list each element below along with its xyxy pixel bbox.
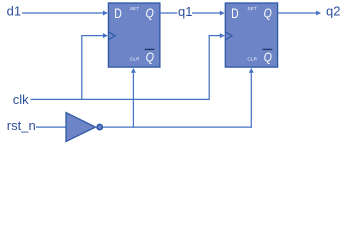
svg-text:d1: d1: [7, 4, 21, 19]
svg-text:rst_n: rst_n: [7, 118, 36, 133]
svg-text:Q: Q: [264, 49, 272, 64]
U2 pin Qbar: [263, 49, 273, 64]
svg-text:D: D: [114, 6, 122, 21]
U1 pin SET: [130, 6, 140, 11]
node q1 label: [177, 4, 192, 19]
wire clk branch up to U1 clock: [81, 33, 108, 100]
inverter U3 triangle: [66, 113, 96, 142]
U1 clock chevron: [109, 32, 116, 40]
wire riser up to U2 CLR: [249, 68, 254, 128]
wire q1 to U2 D input: [192, 11, 225, 16]
flip-flop U2 body: [225, 3, 277, 67]
U1 pin Qbar: [145, 49, 155, 64]
U2 pin Q: [264, 6, 272, 21]
svg-text:Q: Q: [146, 49, 154, 64]
svg-text:SET: SET: [130, 6, 140, 11]
svg-text:q2: q2: [326, 3, 340, 18]
svg-text:q1: q1: [178, 4, 192, 19]
svg-text:clk: clk: [13, 92, 29, 107]
svg-text:D: D: [231, 6, 239, 21]
U2 clock chevron: [226, 32, 233, 40]
svg-text:CLR: CLR: [247, 57, 257, 62]
node rst_n label: [7, 118, 36, 133]
wire clk horizontal: [31, 98, 210, 100]
U2 pin CLR: [247, 57, 257, 62]
wire clk riser to U2 clock: [209, 33, 225, 100]
wire U2 Q to node q2: [278, 11, 321, 16]
node q2 label: [326, 3, 340, 18]
wire rst_n to inverter: [36, 126, 66, 128]
flip-flop U1 body: [108, 3, 159, 67]
svg-text:Q: Q: [264, 6, 272, 21]
wire U1 Q to node q1: [161, 12, 178, 14]
svg-text:Q: Q: [146, 6, 154, 21]
U2 pin D: [231, 6, 239, 21]
U2 pin SET: [247, 6, 257, 11]
wire inverter output horizontal: [103, 126, 252, 128]
node clk label: [13, 92, 29, 107]
svg-text:CLR: CLR: [130, 57, 140, 62]
node d1 label: [7, 4, 21, 19]
inverter U3 bubble: [97, 125, 102, 130]
wire branch up to U1 CLR: [131, 68, 136, 128]
U1 pin Q: [146, 6, 154, 21]
svg-text:SET: SET: [247, 6, 257, 11]
U1 pin D: [114, 6, 122, 21]
U1 pin CLR: [130, 57, 140, 62]
wire d1 to U1 D input: [22, 11, 108, 16]
